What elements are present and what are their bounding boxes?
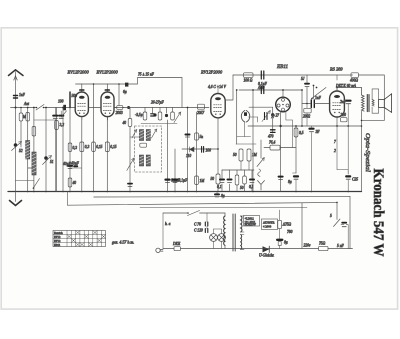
resistor R30 inside can — [140, 143, 147, 147]
wire branch x21 — [20, 107, 22, 147]
resistor R18 — [235, 170, 239, 192]
svg-text:RV12: RV12 — [54, 240, 61, 243]
wire branch x46 — [45, 107, 47, 192]
label det — [335, 84, 357, 88]
resistor R17 — [247, 149, 258, 161]
capacitor C26 bus electrolytic — [215, 192, 225, 199]
svg-text:4 2000: 4 2000 — [263, 225, 272, 229]
wire grid cap V2 — [105, 84, 109, 92]
lamp LA2 — [214, 229, 226, 249]
wire link — [28, 167, 32, 169]
wire plate V4 — [336, 75, 338, 80]
switch S2 — [33, 179, 40, 189]
label RV12P2000 tube V3 — [200, 70, 223, 75]
wire mains bottom — [163, 248, 225, 250]
wire x187.5 drop — [187, 107, 189, 192]
oscillator coil L7 — [241, 111, 249, 137]
wire screen rail over tubes — [76, 78, 183, 108]
table tube chart — [53, 231, 106, 247]
svg-text:RV12P2000: RV12P2000 — [96, 70, 119, 75]
svg-text:50: 50 — [233, 153, 237, 157]
label 220V — [304, 244, 311, 248]
label RV12P2000 tube V1 — [67, 70, 90, 75]
trimmer arrow T1 — [132, 129, 157, 138]
resistor R12 — [171, 108, 175, 121]
capacitor C34 — [153, 113, 156, 116]
tube V3 RV12P2000 — [211, 94, 225, 118]
capacitor C9 — [151, 108, 155, 117]
node junction — [127, 106, 130, 109]
capacitor C14 — [195, 133, 204, 140]
wire link lower — [16, 180, 34, 182]
svg-text:RV12P2000: RV12P2000 — [200, 70, 223, 75]
resistor R15 — [244, 73, 254, 83]
resistor R23 cathode — [341, 113, 348, 122]
tube V2 RV12P2000 — [101, 92, 114, 120]
capacitor C4 series — [58, 100, 66, 111]
svg-text:C 70: C 70 — [194, 223, 201, 227]
junction dot plate rail — [336, 87, 338, 89]
svg-text:Ant: Ant — [23, 102, 30, 106]
svg-text:100: 100 — [58, 100, 64, 104]
wire screen stub x119 — [118, 83, 120, 107]
wire signal line mid — [114, 107, 209, 109]
capacitor C22 electrolytic — [288, 173, 298, 192]
wire cathode V1 — [81, 117, 83, 192]
wire cathode row — [222, 161, 254, 170]
wire x337 drop — [337, 126, 348, 174]
svg-text:50: 50 — [211, 177, 215, 181]
wire B plus to speaker loop — [359, 75, 385, 120]
resistor R25 — [278, 220, 292, 228]
capacitor C16 — [261, 87, 264, 94]
wire bus rail 4 — [140, 206, 307, 208]
wire osc bottom — [237, 117, 258, 137]
svg-text:2nF: 2nF — [340, 100, 347, 104]
wire x239 drop — [236, 89, 238, 144]
svg-text:470: 470 — [268, 135, 274, 139]
wire EB11 bottom right — [286, 111, 293, 147]
svg-text:2003: 2003 — [116, 111, 123, 115]
label 5nF — [337, 244, 344, 248]
resistor R5 — [68, 178, 76, 187]
diode D2 — [202, 147, 211, 153]
svg-text:1nF: 1nF — [19, 93, 26, 97]
resistor R6 cathode V1 — [80, 142, 90, 152]
svg-text:320: 320 — [341, 113, 347, 117]
wire grid row — [236, 143, 256, 145]
switch S4 — [330, 202, 348, 249]
wire EB11 bottom left — [279, 111, 281, 191]
capacitor C10 — [165, 108, 168, 118]
svg-text:27: 27 — [276, 114, 280, 118]
wire main ground bus — [8, 191, 362, 193]
wire bracket right — [337, 170, 348, 175]
capacitor C1 antenna coupling — [14, 93, 26, 98]
svg-text:51: 51 — [50, 160, 54, 164]
svg-text:RV12P2000: RV12P2000 — [67, 70, 90, 75]
svg-text:EB11: EB11 — [54, 244, 61, 247]
wire cathode V3 — [217, 118, 219, 192]
coil L6 — [146, 155, 150, 166]
capacitor C20 — [249, 170, 254, 192]
label filter — [138, 73, 155, 77]
resistor R20 — [264, 141, 296, 151]
svg-text:Λ75Ω: Λ75Ω — [282, 223, 292, 227]
label 26-27µF — [151, 101, 164, 105]
label 3,5µF — [135, 113, 143, 118]
svg-text:Opta-Spezial: Opta-Spezial — [364, 133, 371, 172]
variable arrow pot — [127, 158, 134, 171]
svg-text:400Ω: 400Ω — [350, 79, 358, 83]
pickup jack — [257, 140, 265, 190]
svg-text:Bereich: Bereich — [54, 232, 63, 235]
svg-text:40: 40 — [123, 121, 127, 125]
wire branch x70 — [69, 103, 71, 192]
wire screen dropper x93.5 — [93, 83, 95, 191]
capacitor C27 — [194, 213, 208, 229]
label 780 — [287, 230, 293, 234]
resistor R8 cathode V2 — [105, 142, 116, 152]
resistor R24 — [350, 73, 359, 83]
capacitor C11 electrolytic — [166, 179, 181, 184]
switch S1 wave change — [23, 102, 44, 110]
wire AVC rail — [239, 89, 302, 91]
switch S3 mains — [187, 211, 199, 216]
label ha — [165, 222, 171, 226]
svg-text:8µ: 8µ — [288, 180, 292, 184]
coil L4 — [146, 130, 150, 141]
wire transformer return — [361, 111, 363, 192]
resistor R4 — [68, 143, 77, 152]
capacitor C8 — [128, 184, 132, 187]
wire voice coil top — [372, 89, 379, 100]
variable capacitor C2 tuning — [12, 142, 23, 154]
output transformer secondary — [372, 100, 374, 107]
wire EB11 top — [282, 89, 284, 97]
svg-text:75Ω: 75Ω — [319, 242, 326, 246]
wire osc bracket — [249, 107, 279, 133]
wire mains top — [163, 213, 225, 249]
label kronach 547 w — [370, 169, 386, 257]
resistor R11 — [158, 108, 162, 121]
ground — [10, 192, 22, 206]
speaker — [379, 94, 392, 113]
wire B+ top rail — [233, 74, 353, 76]
svg-text:DKE: DKE — [172, 242, 181, 246]
resistor R14 grid stopper — [197, 104, 205, 115]
resistor R22 — [294, 128, 304, 137]
capacitor C19 — [228, 170, 232, 192]
svg-text:75 ± 15 nF: 75 ± 15 nF — [138, 73, 155, 77]
svg-text:5J: 5J — [301, 77, 305, 81]
resistor R10 — [143, 108, 147, 121]
wire grid line V4 — [302, 103, 310, 105]
svg-text:40µF: 40µF — [71, 162, 80, 166]
svg-text:100 Ω: 100 Ω — [244, 79, 253, 83]
label gez — [112, 240, 134, 245]
trimmer arrow — [174, 112, 181, 123]
resistor R3 — [55, 121, 64, 130]
label RS289 — [329, 67, 343, 72]
svg-text:2002: 2002 — [303, 115, 310, 119]
resistor R9 grid stopper — [116, 106, 123, 115]
power transformer secondary — [241, 216, 244, 249]
capacitor C32 electrolytic — [53, 108, 57, 192]
svg-text:5 nF: 5 nF — [337, 244, 344, 248]
capacitor C28 — [194, 229, 208, 233]
capacitor C35 electrolytic — [279, 177, 283, 180]
selector box 2 — [262, 219, 278, 230]
tube socket EB11 — [276, 97, 291, 112]
label EB11 — [276, 64, 289, 70]
wire branch x56.5 — [56, 108, 58, 192]
switch arrow — [62, 111, 67, 117]
coil L5 — [139, 155, 143, 166]
wire bus rail ends — [302, 196, 350, 248]
resistor R27 cathode V3 — [211, 174, 221, 184]
label opta spezial — [364, 133, 371, 172]
IF transformer T1 can — [135, 126, 162, 172]
svg-text:gez. 4.57 b.m.: gez. 4.57 b.m. — [112, 240, 134, 245]
capacitor C29 electrolytic — [277, 240, 288, 249]
capacitor C31 — [268, 130, 275, 139]
wire branch x33.9 — [33, 107, 35, 192]
svg-text:NORDW: NORDW — [245, 223, 257, 227]
capacitor C6 electrolytic — [63, 162, 72, 169]
coil L1 antenna coil — [26, 141, 30, 160]
wire grid cap V1 — [80, 84, 84, 92]
wire x196.5 drop — [196, 112, 198, 192]
svg-text:780: 780 — [287, 230, 293, 234]
diode D1 — [186, 147, 194, 158]
svg-text:h. a: h. a — [165, 222, 171, 226]
tube V4 output — [330, 91, 345, 117]
wire cathode V4 — [336, 117, 338, 127]
svg-text:5n: 5n — [200, 135, 204, 139]
wire detector line — [182, 148, 219, 150]
resistor R26 — [319, 242, 329, 251]
capacitor C12 electrolytic — [173, 179, 188, 184]
variable capacitor C17 — [262, 111, 275, 122]
lamp LA1 — [210, 229, 218, 249]
wire voice coil bottom — [372, 107, 379, 113]
tube V1 RV12P2000 — [75, 92, 88, 120]
resistor R1 — [21, 113, 30, 122]
wire link y120 — [34, 119, 55, 121]
svg-text:C25: C25 — [352, 178, 358, 182]
svg-text:220v: 220v — [304, 244, 311, 248]
svg-text:5: 5 — [330, 214, 332, 218]
capacitor C24 — [340, 100, 351, 127]
wire x130 drop — [129, 108, 131, 192]
power transformer T2 primary — [224, 213, 225, 249]
label RV12P2000 tube V2 — [96, 70, 119, 75]
wire x175 drop — [174, 149, 176, 192]
svg-text:50: 50 — [240, 186, 244, 190]
svg-text:RS 289: RS 289 — [329, 67, 343, 72]
wire selector drop — [279, 210, 281, 239]
rectifier D3 — [259, 246, 274, 257]
variable capacitor C3 — [43, 156, 54, 165]
svg-text:Kronach 547 W: Kronach 547 W — [370, 169, 386, 257]
svg-text:EB11: EB11 — [276, 64, 289, 70]
resistor R13 — [195, 176, 206, 185]
fuse F1 — [172, 242, 181, 251]
voltage selector box — [244, 216, 260, 227]
capacitor C15 — [257, 71, 268, 90]
wire grid feed thick — [70, 92, 77, 108]
svg-text:77: 77 — [271, 115, 275, 119]
wire x253 drop — [252, 89, 254, 192]
wire bus rail 3 — [67, 192, 337, 206]
wire input top rail — [11, 107, 76, 109]
wire x167.5 drop — [167, 120, 169, 192]
svg-text:1nF: 1nF — [315, 96, 322, 100]
resistor R7 — [92, 142, 103, 152]
wire branch x63 — [62, 107, 64, 192]
capacitor C23 — [310, 126, 321, 192]
wire x296 branch — [295, 125, 297, 173]
capacitor C33 electrolytic — [59, 111, 63, 118]
capacitor C13 — [186, 135, 190, 138]
label above V3 — [208, 85, 227, 93]
svg-text:8µ: 8µ — [221, 194, 225, 198]
wire x302 drop — [301, 89, 303, 127]
cluster tone switch — [301, 75, 326, 104]
wire plate V3 — [225, 75, 233, 100]
capacitor C7 electrolytic — [70, 162, 82, 169]
wire branch x27.7 — [27, 107, 29, 192]
resistor R19 — [240, 170, 246, 192]
wire dc bottom rail — [225, 248, 353, 250]
resistor R16 — [233, 149, 243, 161]
wire B plus line mid — [248, 125, 362, 127]
wire cathode V2 — [106, 117, 108, 192]
mains plug — [156, 248, 163, 252]
resistor R21 — [303, 104, 311, 127]
wire lower link — [141, 123, 177, 125]
capacitor C30 on screen rail — [123, 83, 128, 94]
output transformer T3 primary — [362, 95, 365, 111]
wire bus rail 2 — [94, 195, 350, 198]
wire coupling V1-V2 — [88, 107, 124, 109]
svg-text:6µ: 6µ — [123, 90, 127, 94]
svg-text:26-27µF: 26-27µF — [151, 101, 164, 105]
capacitor C21 coupling — [311, 96, 330, 108]
svg-text:110: 110 — [186, 154, 191, 158]
wire x137 link — [130, 136, 139, 138]
svg-text:8µ: 8µ — [284, 241, 288, 245]
wire antenna drop — [15, 107, 17, 192]
resistor R2 — [32, 127, 36, 137]
svg-text:2057: 2057 — [197, 111, 204, 115]
resistor R28 — [123, 119, 132, 127]
label squiggle — [334, 140, 336, 153]
svg-text:RV12: RV12 — [54, 236, 61, 239]
svg-text:C 120: C 120 — [194, 229, 203, 233]
svg-text:100: 100 — [206, 149, 212, 153]
power transformer core — [233, 214, 235, 251]
resistor R29 — [19, 113, 23, 121]
svg-text:2: 2 — [334, 149, 336, 153]
coil L3 — [139, 130, 143, 141]
output transformer core — [367, 95, 369, 112]
svg-text:40: 40 — [73, 181, 77, 185]
capacitor C18 — [217, 170, 224, 192]
wire plate to transformer — [337, 88, 362, 96]
svg-text:U-Gleichr.: U-Gleichr. — [259, 254, 274, 258]
antenna — [9, 70, 24, 108]
coil L2 — [32, 152, 36, 175]
svg-text:52: 52 — [19, 149, 23, 153]
svg-text:7: 7 — [334, 140, 336, 144]
capacitor C25 electrolytic — [346, 176, 358, 191]
